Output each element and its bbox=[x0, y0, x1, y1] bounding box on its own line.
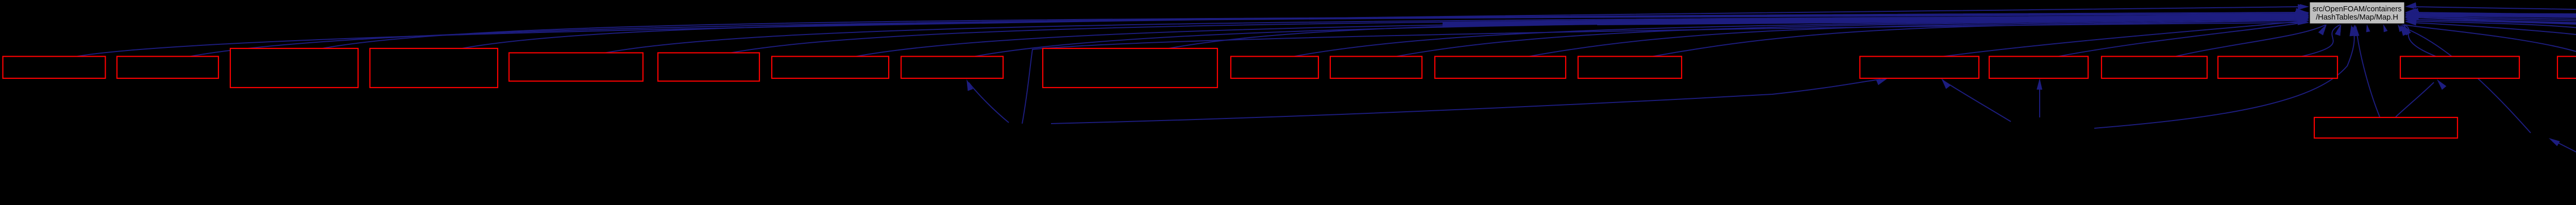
arrowhead R lens at central bbox=[2405, 20, 2416, 25]
arrowhead edge box5 bbox=[2298, 12, 2309, 18]
node R edge to V1 bbox=[2553, 140, 2576, 178]
edge box23 to central bbox=[2412, 16, 2576, 57]
arrowhead edge box25 bbox=[2405, 10, 2416, 16]
arrowhead edge box28 bbox=[2405, 3, 2417, 8]
edge box16 to central bbox=[2176, 25, 2326, 57]
edge box2 to central bbox=[190, 12, 2302, 57]
box33 edge to central (S-curve) bbox=[2413, 18, 2576, 110]
arrowhead cluster right of central bbox=[2405, 4, 2414, 9]
node box17 bbox=[2218, 57, 2337, 79]
edge box9 to central bbox=[1168, 18, 2302, 48]
arrowhead edge box20 bbox=[2405, 18, 2416, 24]
arrowhead edge box18 bbox=[2401, 24, 2408, 36]
arrowhead edge box8 bbox=[2298, 13, 2309, 19]
arrowhead L1 edge at central bbox=[2298, 20, 2309, 25]
arrowhead edge box27 bbox=[2405, 8, 2417, 14]
edge box18 to central bbox=[2402, 25, 2436, 57]
edge box10 to central bbox=[1294, 18, 2302, 57]
arrowhead edge box4 bbox=[2298, 11, 2309, 16]
node box19 bbox=[2557, 57, 2576, 79]
node box18 bbox=[2400, 57, 2519, 79]
arrowhead edge box22 bbox=[2405, 14, 2416, 20]
node L1 (hidden) edge up to central bbox=[1022, 23, 2301, 124]
wire bundle left band 2 bbox=[1597, 18, 2299, 24]
arrowhead edge box17 bbox=[2335, 24, 2341, 36]
arrowhead edge box21 bbox=[2405, 16, 2416, 22]
node box15 bbox=[1989, 57, 2088, 79]
edge box12 to central bbox=[1529, 20, 2302, 57]
node box31 bbox=[2314, 117, 2458, 138]
arrowhead edge box24 bbox=[2405, 12, 2416, 18]
node box5 bbox=[509, 53, 643, 81]
arrowhead node M edge at central bottom bbox=[2349, 25, 2355, 36]
arrowhead edge box7 bbox=[2298, 12, 2309, 18]
arrowhead cluster left of central bbox=[2300, 4, 2309, 9]
node box2 bbox=[117, 57, 218, 79]
node box16 bbox=[2102, 57, 2207, 79]
arrowhead cluster below central bbox=[2321, 24, 2327, 32]
edge box13 to central bbox=[1653, 21, 2302, 57]
arrowhead edge box13 bbox=[2297, 16, 2309, 22]
edge box27 to central bbox=[2412, 12, 2576, 57]
edge box20 to central bbox=[2412, 21, 2576, 57]
node box4 bbox=[370, 48, 498, 88]
arrowhead into box15 bottom bbox=[2037, 78, 2042, 90]
edge box15 to central bbox=[2058, 23, 2303, 57]
node box9 bbox=[1043, 48, 1217, 88]
node M edge to box15 bbox=[2039, 82, 2040, 117]
box32 edge to central (through gap) bbox=[2413, 20, 2576, 110]
edge box22 to central bbox=[2412, 18, 2576, 57]
arrowhead edge box2 bbox=[2298, 10, 2309, 15]
arrowhead edge box14 bbox=[2297, 15, 2309, 21]
arrowhead edge box6 bbox=[2298, 12, 2309, 18]
arrowhead box31 into box18 bottom bbox=[2437, 79, 2446, 90]
arrowhead L1 edge into box14 bottom-left bbox=[1876, 78, 1888, 85]
arrowhead edge box19 bbox=[2403, 24, 2411, 36]
edge box26 to central bbox=[2412, 13, 2576, 57]
edge box7 to central bbox=[856, 16, 2302, 57]
edge box28 to central bbox=[2412, 7, 2576, 57]
node R lens edge up through gap bbox=[2413, 23, 2576, 178]
edge box17 to central bbox=[2301, 25, 2340, 57]
node box14 bbox=[1860, 57, 1979, 79]
edge box25 to central bbox=[2412, 14, 2576, 57]
node box13 bbox=[1578, 57, 1682, 79]
arrowhead into box8 bottom bbox=[967, 79, 973, 91]
arrowhead M into box14 bottom bbox=[1941, 78, 1951, 89]
node box3 bbox=[230, 48, 358, 88]
arrowhead box33 at central bbox=[2405, 13, 2416, 19]
arrowhead edge box3 bbox=[2298, 11, 2309, 16]
node box11 bbox=[1330, 57, 1422, 79]
edge box6 to central bbox=[731, 15, 2302, 53]
arrowhead edge box1 bbox=[2298, 4, 2309, 10]
arrowhead edge box16 bbox=[2318, 24, 2327, 36]
node L1 (hidden) edge to box8 bbox=[969, 82, 1009, 123]
arrowhead edge box15 bbox=[2297, 17, 2309, 23]
edge box5 to central bbox=[605, 15, 2302, 53]
node box6 bbox=[658, 53, 759, 81]
node box12 bbox=[1435, 57, 1566, 79]
node box7 bbox=[772, 57, 889, 79]
edge box8 to central bbox=[975, 17, 2302, 57]
wire bundle left band bbox=[1443, 16, 2299, 24]
arrowhead V1 at central bottom bbox=[2400, 25, 2408, 36]
arrowhead R->V1 bbox=[2549, 138, 2560, 146]
edge box19 to central bbox=[2404, 25, 2576, 57]
arrowhead edge box9 bbox=[2298, 14, 2309, 20]
box31 edge to box18 bbox=[2396, 82, 2434, 117]
central node src/OpenFOAM/containers/HashTables/Map/Map.H bbox=[2310, 2, 2404, 24]
node box10 bbox=[1231, 57, 1318, 79]
arrowhead edge box11 bbox=[2298, 14, 2310, 20]
edge box21 to central bbox=[2412, 20, 2576, 57]
arrowhead edge box10 bbox=[2298, 14, 2309, 20]
node V1 edge to central bbox=[2402, 27, 2531, 133]
arrowhead edge box23 bbox=[2405, 13, 2416, 19]
edge box14 to central bbox=[1943, 21, 2303, 57]
edge box1 to central bbox=[77, 7, 2302, 57]
svg-text:src/OpenFOAM/containers: src/OpenFOAM/containers bbox=[2313, 5, 2402, 13]
node M edge to central bbox=[2094, 27, 2354, 128]
arrowhead box32 at central bbox=[2405, 16, 2416, 22]
node L1 (hidden) long edge to box14 bbox=[1051, 79, 1880, 124]
edge box24 to central bbox=[2412, 15, 2576, 48]
edge box11 to central bbox=[1396, 19, 2302, 57]
node box1 bbox=[3, 57, 106, 79]
arrowhead edge box26 bbox=[2405, 9, 2417, 15]
edge box3 to central bbox=[323, 13, 2302, 48]
wire bundle right band bbox=[2415, 15, 2576, 23]
edge box4 to central bbox=[462, 14, 2302, 48]
box31 edge to central bottom bbox=[2356, 27, 2380, 117]
node M edge to box14 bbox=[1944, 81, 2011, 122]
arrowhead box31 at central bbox=[2353, 25, 2359, 36]
svg-text:/HashTables/Map/Map.H: /HashTables/Map/Map.H bbox=[2316, 13, 2398, 22]
node box8 bbox=[901, 57, 1003, 79]
arrowhead edge box12 bbox=[2298, 15, 2310, 21]
